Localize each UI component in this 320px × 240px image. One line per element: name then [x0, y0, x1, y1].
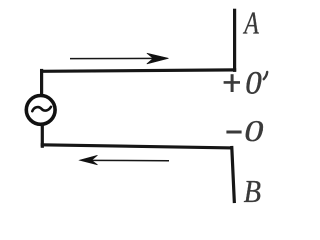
svg-text:B: B [244, 173, 261, 209]
wire right vertical to terminal B [232, 148, 235, 202]
label -0 [226, 114, 263, 148]
forward wave arrow [70, 53, 169, 64]
wire top horizontal [42, 70, 235, 71]
wire left vertical lower [41, 126, 44, 147]
wire left vertical upper [40, 71, 43, 95]
svg-text:A: A [243, 6, 260, 41]
return wave arrow [80, 155, 170, 165]
ac source G1 [26, 96, 55, 125]
label +0' [224, 65, 268, 101]
node A label [243, 6, 260, 41]
wire bottom horizontal [42, 145, 231, 148]
node B label [244, 173, 261, 209]
wire right vertical to terminal A [233, 10, 236, 70]
svg-text:0: 0 [245, 65, 262, 101]
svg-text:0: 0 [244, 114, 263, 148]
